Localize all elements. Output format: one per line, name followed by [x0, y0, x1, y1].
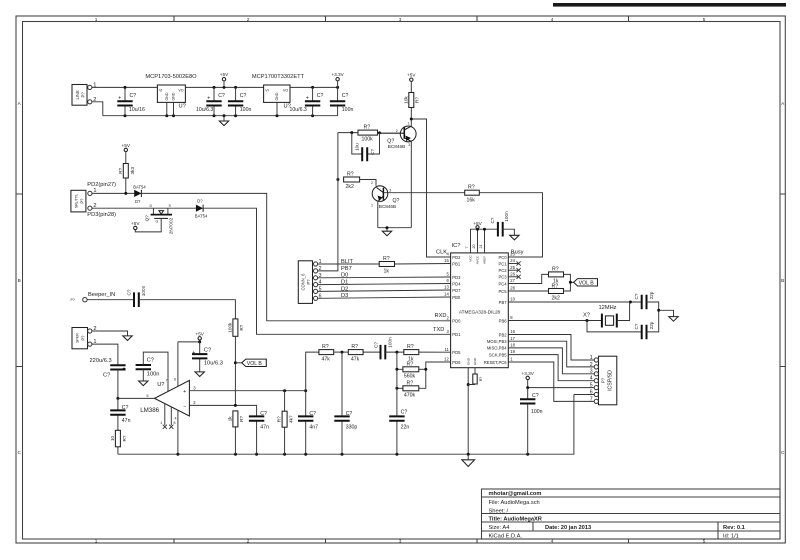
ground	[219, 116, 228, 126]
svg-text:R?: R?	[552, 283, 559, 289]
svg-text:GND: GND	[466, 357, 470, 365]
power +3.3V icsp	[522, 371, 535, 389]
svg-text:+: +	[192, 350, 195, 356]
svg-text:19: 19	[510, 349, 515, 354]
svg-text:13: 13	[444, 285, 449, 290]
svg-text:R?: R?	[322, 344, 329, 350]
svg-text:R?: R?	[552, 267, 559, 273]
svg-text:C?: C?	[317, 93, 324, 99]
wire PD6 to 560k/470k	[419, 362, 451, 388]
svg-text:C?: C?	[346, 411, 353, 417]
svg-text:C?: C?	[370, 149, 375, 155]
wire GND pins to rail	[468, 368, 475, 455]
svg-text:CONN_6: CONN_6	[301, 273, 306, 291]
power +3.3V	[331, 72, 344, 87]
svg-text:GND: GND	[172, 92, 176, 100]
capacitor C? 10u	[352, 133, 380, 162]
wire lm386 out node	[116, 397, 119, 400]
svg-text:+5V: +5V	[220, 72, 229, 77]
resistor R? 3k3	[118, 164, 135, 194]
svg-text:2: 2	[247, 539, 250, 544]
svg-text:C?: C?	[634, 323, 639, 329]
no-connect lm386 pin1	[163, 425, 167, 429]
svg-text:3: 3	[389, 189, 391, 193]
svg-text:+3.3V: +3.3V	[331, 72, 344, 77]
svg-text:12MHz: 12MHz	[599, 305, 617, 311]
wire plus input	[189, 390, 305, 392]
connector P? ICSP/SD	[590, 355, 617, 405]
svg-text:SCK,PB5: SCK,PB5	[489, 352, 507, 357]
net label Beeper_IN	[71, 292, 116, 302]
power +5V	[407, 73, 416, 93]
capacitor C? 4n7	[298, 391, 318, 455]
svg-text:C?: C?	[490, 217, 495, 223]
wire RESET to ICSP7	[508, 362, 594, 401]
svg-text:BC846B: BC846B	[388, 144, 405, 149]
svg-text:2k2: 2k2	[346, 184, 354, 190]
svg-text:12: 12	[444, 357, 449, 362]
svg-text:100n: 100n	[240, 107, 252, 113]
capacitor C? 10u/6.3 lm386	[192, 342, 223, 372]
svg-text:R?: R?	[277, 416, 282, 422]
power +5V	[131, 221, 140, 230]
svg-text:22p: 22p	[649, 291, 654, 299]
capacitor C? 100n reset	[520, 388, 543, 455]
capacitor C? 47n out	[110, 398, 130, 430]
connector P? CONN_6	[298, 259, 321, 303]
svg-text:4: 4	[590, 376, 593, 382]
ground 10u	[195, 372, 204, 377]
wire MISO to ICSP3	[508, 348, 594, 374]
capacitor C? 10u/16	[117, 86, 145, 116]
wire PC4 to 1k	[508, 274, 548, 283]
svg-text:100n: 100n	[342, 107, 354, 113]
resistor R? 2k2 vol	[549, 283, 564, 301]
svg-text:PB7: PB7	[499, 300, 508, 305]
IC? ATMEGA328-DIL28	[444, 243, 516, 368]
svg-text:18: 18	[510, 343, 515, 348]
svg-text:P?: P?	[71, 298, 75, 302]
op-amp U? LM386	[140, 342, 196, 454]
svg-text:3: 3	[399, 539, 402, 544]
capacitor C? 220u/6.3	[90, 358, 126, 399]
wire BLIT	[318, 263, 380, 265]
wire D1	[318, 284, 451, 285]
capacitor C? 47n minus	[249, 411, 269, 454]
svg-text:1: 1	[160, 421, 162, 425]
resistor R? 100k	[338, 125, 381, 143]
svg-text:D?: D?	[135, 199, 141, 204]
svg-text:R?: R?	[122, 435, 127, 441]
crystal X? 12MHz	[583, 305, 617, 328]
svg-text:P?: P?	[81, 335, 86, 341]
svg-text:P?: P?	[306, 279, 311, 285]
svg-text:4n7: 4n7	[309, 424, 318, 430]
svg-text:10u/6.3: 10u/6.3	[204, 361, 223, 367]
svg-text:Beeper_IN: Beeper_IN	[88, 292, 115, 298]
svg-text:PD5: PD5	[452, 350, 461, 355]
svg-text:P?: P?	[81, 92, 86, 98]
svg-text:C?: C?	[532, 393, 539, 399]
svg-text:VO: VO	[283, 88, 288, 92]
wire psu ground rail	[103, 115, 338, 117]
svg-text:10: 10	[510, 297, 515, 302]
svg-text:1: 1	[95, 17, 98, 22]
svg-text:Rev: 0.1: Rev: 0.1	[723, 525, 745, 531]
wire beeper to cap	[87, 299, 134, 301]
wire D2	[318, 290, 451, 291]
wire spkr1 to cap	[92, 344, 118, 365]
wire plus up to filter	[306, 352, 319, 391]
wire PB7 up	[318, 133, 338, 271]
wire PD2 net to RXD	[141, 193, 450, 320]
connector P? SRL/TTL	[71, 188, 97, 212]
wire minus input	[189, 405, 256, 411]
svg-text:MOSI,PB3: MOSI,PB3	[487, 339, 507, 344]
svg-text:3k3: 3k3	[130, 167, 135, 175]
svg-text:R?: R?	[407, 380, 414, 386]
no-connect PC2	[508, 269, 518, 271]
svg-text:D?: D?	[197, 198, 203, 203]
ground spkr	[123, 336, 132, 341]
svg-text:VI: VI	[265, 88, 268, 92]
svg-text:8: 8	[174, 421, 176, 425]
svg-text:+: +	[306, 96, 309, 102]
svg-text:1: 1	[371, 204, 373, 208]
svg-text:10u/6.3: 10u/6.3	[290, 107, 307, 113]
svg-text:22p: 22p	[649, 321, 654, 329]
resistor R? 16k	[465, 185, 480, 204]
svg-text:47n: 47n	[260, 424, 269, 430]
svg-text:C?: C?	[127, 289, 132, 295]
svg-text:5: 5	[590, 383, 593, 389]
svg-text:PC0: PC0	[498, 255, 507, 260]
svg-text:47n: 47n	[122, 418, 131, 424]
svg-text:P?: P?	[601, 377, 606, 383]
wire MOSI to ICSP2	[508, 341, 594, 367]
svg-text:C?: C?	[204, 347, 211, 353]
svg-text:PD3: PD3	[452, 275, 461, 280]
svg-text:BAT54: BAT54	[195, 214, 208, 219]
svg-text:C?: C?	[130, 93, 137, 99]
svg-text:MCP1703-5002E8O: MCP1703-5002E8O	[145, 74, 197, 80]
wire +3.3V to ICSP5	[528, 387, 595, 389]
svg-text:VO: VO	[178, 88, 183, 92]
transistor Q? BC846B bottom	[371, 181, 400, 228]
wire PC5 to 2k2	[508, 290, 548, 292]
svg-text:2: 2	[396, 129, 398, 133]
svg-text:C?: C?	[240, 93, 247, 99]
resistor R? 47k a	[319, 344, 334, 362]
svg-text:22n: 22n	[401, 424, 410, 430]
capacitor C? 10u/6.3	[196, 87, 225, 115]
svg-text:VCC: VCC	[469, 254, 473, 261]
svg-text:14: 14	[444, 292, 449, 297]
svg-text:PD1: PD1	[452, 332, 461, 337]
wire SCK to ICSP4	[508, 355, 594, 381]
svg-text:20: 20	[472, 245, 476, 249]
svg-text:Id: 1/1: Id: 1/1	[723, 533, 739, 539]
svg-text:25: 25	[510, 265, 515, 270]
svg-text:Date: 20 jan 2013: Date: 20 jan 2013	[545, 525, 591, 531]
resistor R? 100k beeper	[227, 319, 244, 406]
svg-text:3: 3	[590, 369, 593, 375]
svg-text:IC?: IC?	[452, 243, 461, 249]
svg-text:B: B	[781, 278, 784, 283]
title block	[482, 489, 781, 539]
wire 16k to Busy/PC0	[479, 193, 542, 257]
svg-text:4: 4	[175, 417, 177, 421]
svg-text:SPKR: SPKR	[76, 333, 80, 343]
wire pin2 to mosfet	[92, 207, 153, 209]
svg-text:10k: 10k	[403, 96, 408, 104]
svg-text:10: 10	[110, 436, 115, 442]
svg-text:26: 26	[510, 271, 515, 276]
regulator U? MCP1703-5002E8O	[145, 74, 197, 116]
svg-text:100k: 100k	[362, 136, 374, 142]
svg-text:D: D	[150, 204, 153, 208]
svg-text:1: 1	[590, 355, 593, 361]
svg-text:U?: U?	[157, 382, 164, 388]
svg-text:10u/16: 10u/16	[129, 107, 145, 113]
hierarchical label VOL_B audio	[234, 359, 266, 367]
svg-text:VOL B: VOL B	[247, 361, 263, 367]
svg-text:File: AudioMega.sch: File: AudioMega.sch	[489, 500, 540, 506]
svg-text:100n: 100n	[388, 337, 393, 348]
regulator U? MCP1700T3302ETT	[252, 74, 305, 116]
capacitor C? 100n beeper	[127, 285, 147, 307]
wire VO to VI2	[185, 86, 263, 88]
svg-text:PD7: PD7	[452, 288, 461, 293]
resistor R? 10	[110, 430, 127, 454]
svg-text:4: 4	[551, 17, 554, 22]
svg-text:Q?: Q?	[393, 198, 400, 204]
svg-text:6: 6	[174, 377, 176, 381]
resistor R? 1k blit	[379, 256, 394, 274]
svg-text:21: 21	[479, 245, 483, 249]
svg-text:C?: C?	[122, 405, 129, 411]
wire VCC AVCC AREF	[471, 229, 498, 253]
svg-text:16: 16	[510, 329, 515, 334]
svg-text:11: 11	[444, 347, 449, 352]
svg-text:10u/6.3: 10u/6.3	[196, 107, 213, 113]
wire D3	[318, 297, 451, 298]
resistor R? 1k pd5	[404, 344, 451, 362]
svg-text:+5V: +5V	[407, 73, 416, 78]
ground main	[462, 454, 475, 466]
svg-text:Q?: Q?	[145, 215, 150, 222]
no-connect PC1	[508, 263, 518, 265]
svg-text:47k: 47k	[322, 356, 331, 362]
svg-text:5: 5	[147, 394, 149, 398]
svg-text:PD4: PD4	[452, 281, 461, 286]
svg-text:560k: 560k	[404, 374, 416, 380]
svg-text:100n: 100n	[147, 372, 160, 378]
svg-text:10u: 10u	[355, 143, 360, 151]
svg-text:1: 1	[95, 539, 98, 544]
svg-text:2: 2	[371, 181, 373, 185]
svg-text:X?: X?	[583, 312, 590, 318]
capacitor C? 100n	[228, 87, 252, 115]
svg-text:RESET,PC6: RESET,PC6	[484, 360, 507, 365]
resistor R? gnd	[468, 374, 483, 385]
svg-text:R?: R?	[351, 344, 358, 350]
svg-text:+: +	[183, 389, 186, 395]
svg-text:+: +	[207, 96, 210, 102]
svg-text:Sheet: /: Sheet: /	[489, 508, 509, 514]
svg-text:100n: 100n	[504, 211, 509, 222]
svg-text:PB0: PB0	[452, 295, 461, 300]
svg-text:MCP1700T3302ETT: MCP1700T3302ETT	[252, 74, 305, 80]
svg-text:PC2: PC2	[498, 268, 507, 273]
svg-text:PB6: PB6	[499, 318, 508, 323]
wire VO2 to +3.3V	[290, 86, 338, 88]
diode D? BAT54	[133, 185, 146, 204]
svg-text:GND: GND	[473, 357, 477, 365]
svg-text:R?: R?	[479, 377, 483, 382]
svg-text:Busy: Busy	[511, 250, 524, 256]
svg-text:100n: 100n	[531, 409, 543, 415]
svg-text:2N7002: 2N7002	[169, 217, 174, 234]
wire mosfet to diode2	[153, 207, 196, 209]
capacitor C? 22n	[389, 369, 409, 454]
svg-text:C?: C?	[147, 357, 154, 363]
svg-text:R?: R?	[239, 416, 244, 422]
svg-text:GND: GND	[165, 92, 169, 100]
wire crystal right up	[617, 302, 630, 321]
svg-text:1k: 1k	[227, 416, 232, 422]
svg-text:4k7: 4k7	[288, 415, 293, 423]
resistor R? 1k vol	[549, 267, 564, 285]
svg-text:MISO,PB4: MISO,PB4	[487, 346, 507, 351]
resistor R? 4k7	[277, 391, 294, 455]
hierarchical label VOL_B	[574, 279, 598, 287]
power +5V	[473, 221, 482, 229]
resistor R? 470k	[395, 368, 418, 399]
wire PB2 to ICSP1	[508, 335, 594, 361]
svg-text:C: C	[18, 450, 22, 455]
wire PB7 crystal line	[508, 301, 641, 303]
svg-text:R?: R?	[364, 125, 371, 131]
svg-text:R?: R?	[415, 97, 420, 103]
svg-text:PD3(pin28): PD3(pin28)	[87, 212, 116, 218]
svg-text:7: 7	[166, 379, 168, 383]
wire collector to 16k	[388, 192, 465, 194]
wire LINE pin1 to VI	[92, 86, 157, 88]
svg-text:R?: R?	[239, 324, 244, 330]
diode D? BAT54	[195, 198, 208, 218]
svg-text:PD0: PD0	[452, 319, 461, 324]
svg-text:3: 3	[408, 143, 410, 147]
svg-text:CLK: CLK	[436, 250, 447, 256]
svg-text:+3.3V: +3.3V	[522, 371, 535, 376]
svg-text:100k: 100k	[227, 322, 232, 333]
capacitor C? 100n filter	[374, 337, 404, 360]
svg-text:R?: R?	[407, 361, 414, 367]
capacitor C? 100n	[330, 87, 354, 115]
svg-text:1k: 1k	[384, 268, 390, 274]
svg-text:R?: R?	[383, 256, 390, 262]
capacitor C? 100n avcc	[490, 211, 514, 237]
resistor R? 1k minus	[227, 411, 244, 454]
resistor R? 560k	[397, 352, 426, 380]
svg-text:PD2(pin27): PD2(pin27)	[87, 182, 116, 188]
svg-text:C?: C?	[260, 411, 267, 417]
svg-text:17: 17	[510, 336, 515, 341]
no-connect lm386 pin8	[169, 425, 173, 429]
svg-text:16k: 16k	[467, 197, 476, 203]
svg-text:28: 28	[510, 286, 515, 291]
svg-text:AVCC: AVCC	[476, 255, 480, 264]
svg-text:AREF: AREF	[483, 256, 487, 264]
svg-text:ICSP/SD: ICSP/SD	[607, 370, 613, 391]
svg-text:TXD: TXD	[433, 327, 444, 333]
svg-text:C: C	[781, 450, 785, 455]
svg-text:2: 2	[590, 362, 593, 368]
wire main ground rail	[118, 395, 574, 455]
svg-text:mhotar@gmail.com: mhotar@gmail.com	[489, 491, 542, 497]
svg-text:C?: C?	[309, 411, 316, 417]
svg-text:LM386: LM386	[140, 407, 159, 414]
ground bypass	[139, 381, 148, 386]
svg-text:+5V: +5V	[131, 221, 140, 226]
wire vol join	[564, 274, 574, 291]
svg-text:C?: C?	[374, 342, 379, 348]
svg-text:PC1: PC1	[498, 261, 507, 266]
svg-text:PC3: PC3	[498, 275, 507, 280]
svg-text:PD2: PD2	[452, 255, 461, 260]
svg-text:PB1: PB1	[452, 261, 461, 266]
svg-text:+: +	[118, 96, 121, 102]
svg-text:470k: 470k	[404, 393, 416, 399]
ground	[378, 226, 412, 236]
svg-text:GND: GND	[275, 92, 279, 100]
power +5V lm386	[178, 332, 205, 344]
svg-text:RXD: RXD	[435, 313, 447, 319]
svg-text:27: 27	[510, 278, 515, 283]
svg-text:BC846B: BC846B	[379, 204, 396, 209]
transistor Q? BC846B top	[380, 121, 417, 227]
svg-text:R?: R?	[347, 172, 354, 178]
power +5V	[220, 72, 229, 87]
wire LINE pin2 down to ground rail	[92, 102, 103, 116]
ground crystal	[657, 309, 678, 321]
svg-text:C?: C?	[634, 293, 639, 299]
ground avcc	[510, 235, 519, 240]
svg-text:P?: P?	[80, 198, 85, 204]
svg-text:VOL B: VOL B	[579, 280, 595, 286]
wire crystal bottom loop	[587, 321, 641, 332]
svg-text:PC5: PC5	[498, 289, 507, 294]
resistor R? 10k	[403, 93, 419, 127]
wire 47k join	[334, 351, 349, 353]
capacitor C? 22p top	[634, 291, 659, 310]
svg-text:+: +	[123, 366, 126, 372]
wire 1k to PB1	[395, 263, 451, 266]
svg-text:5: 5	[703, 17, 706, 22]
resistor R? 2k2	[336, 172, 376, 191]
svg-text:+5V: +5V	[473, 221, 482, 226]
svg-text:330p: 330p	[346, 424, 358, 430]
svg-text:PB2: PB2	[499, 332, 508, 337]
wire cap to 100k	[139, 300, 236, 319]
svg-text:6: 6	[590, 389, 593, 395]
svg-text:24: 24	[510, 258, 515, 263]
svg-text:C?: C?	[401, 410, 408, 416]
svg-text:Title: AudioMegaXR: Title: AudioMegaXR	[489, 517, 542, 523]
svg-text:220u/6.3: 220u/6.3	[90, 358, 112, 364]
svg-text:LINE: LINE	[75, 90, 80, 100]
